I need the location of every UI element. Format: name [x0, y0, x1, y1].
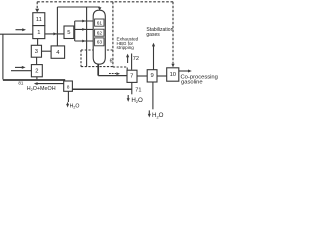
unit 1 box: [33, 26, 45, 39]
bed section 62: [95, 29, 104, 36]
svg-text:72: 72: [133, 56, 139, 62]
wire stem to unit 7: [98, 75, 127, 77]
bed section 61: [95, 19, 104, 26]
wire unit 3 down to unit 2: [36, 57, 38, 64]
wire unit 9 to unit 10: [157, 75, 167, 77]
arrow into column top: [98, 7, 101, 10]
unit 11 box: [33, 13, 45, 26]
wire manifold from unit 5: [74, 21, 76, 41]
svg-text:2: 2: [35, 68, 38, 74]
wire dashed drop into unit 10: [172, 2, 174, 64]
unit 3 box: [31, 45, 41, 57]
wire stream 72 from unit 7 top: [131, 54, 133, 70]
bed section 63: [95, 38, 104, 46]
wire water leg below unit 9: [152, 82, 154, 109]
svg-text:9: 9: [150, 73, 153, 79]
svg-text:10: 10: [170, 72, 176, 78]
svg-text:8: 8: [67, 84, 70, 89]
wire unit 3 to unit 4: [42, 50, 52, 52]
wire dashed HBG into unit 7: [113, 67, 127, 70]
svg-text:gases: gases: [146, 32, 160, 38]
wire node vertical x57: [56, 7, 58, 46]
wire water leg below unit 8: [67, 91, 69, 102]
svg-text:6: 6: [110, 58, 113, 64]
wire unit 10 outlet: [179, 70, 192, 73]
svg-text:gasoline: gasoline: [181, 79, 203, 85]
arrow glyph on feed: [16, 28, 27, 31]
wire feed bed 61: [75, 20, 94, 23]
unit 9 box: [147, 70, 157, 82]
wire feed into unit 1: [0, 33, 33, 35]
wire water leg below unit 7: [131, 82, 133, 94]
stripper column 6 vessel: [93, 10, 105, 64]
wire stream 81 to the left: [34, 82, 64, 85]
wire feed into unit 2: [11, 70, 31, 72]
wire dashed HBG top line: [37, 1, 173, 3]
svg-text:7: 7: [130, 73, 133, 79]
svg-text:H2O: H2O: [70, 103, 80, 109]
unit 10 box: [167, 68, 179, 81]
wire bottom recycle bus: [3, 79, 65, 81]
svg-text:62: 62: [97, 30, 103, 36]
wire column bottom stem: [97, 64, 99, 76]
dashed enclosure 6 left edge: [80, 50, 82, 67]
wire stabilization gases riser: [152, 43, 155, 70]
wire dashed vertical at x113: [112, 2, 114, 67]
svg-text:61: 61: [97, 20, 103, 26]
wire unit 2 to bus: [36, 77, 38, 80]
arrow glyph on unit 2 feed: [15, 66, 26, 69]
wire feed bed 62: [75, 28, 94, 31]
wire unit 1 to node: [45, 33, 64, 35]
wire top line to column: [57, 6, 99, 8]
arrow H2O below unit 7: [127, 95, 130, 102]
unit 4 box: [51, 46, 65, 58]
wire unit 7 to unit 9: [137, 75, 147, 77]
svg-text:5: 5: [67, 30, 70, 36]
svg-text:H2O: H2O: [131, 97, 143, 104]
svg-text:71: 71: [135, 88, 141, 94]
arrow on unit1 output: [53, 32, 57, 35]
unit 5 box: [64, 26, 74, 39]
arrow glyph stream 72 up: [126, 54, 129, 63]
unit 7 box: [127, 70, 137, 82]
arrow into unit 11: [35, 9, 39, 13]
wire vertical x86: [86, 7, 88, 67]
wire feed bed 63: [75, 40, 95, 43]
wire dashed drop into unit 11: [36, 2, 38, 9]
svg-text:11: 11: [36, 17, 42, 23]
wire unit 1 down to unit 3: [37, 39, 39, 46]
unit 2 box: [31, 65, 42, 77]
dashed enclosure 6 top edge: [81, 49, 113, 51]
svg-text:H2O: H2O: [152, 112, 164, 119]
unit 8 box: [64, 81, 73, 91]
svg-text:stripping: stripping: [117, 45, 135, 50]
svg-text:63: 63: [97, 40, 103, 46]
svg-text:3: 3: [35, 49, 38, 55]
svg-text:81: 81: [18, 81, 23, 86]
svg-text:1: 1: [37, 30, 40, 36]
wire unit 8 to unit 7 leg: [72, 88, 131, 90]
arrow H2O below unit 8: [66, 102, 69, 107]
arrow into unit 10: [171, 64, 174, 68]
wire recycle left drop: [2, 34, 4, 79]
arrow glyph on stem line: [109, 72, 120, 75]
dashed enclosure 6 bottom edge: [81, 66, 113, 68]
arrow H2O below unit 9: [148, 110, 151, 117]
